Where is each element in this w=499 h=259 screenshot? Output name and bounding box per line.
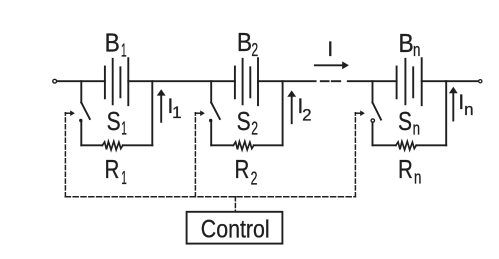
- label S2: [237, 106, 258, 139]
- label In: [458, 91, 473, 119]
- wire junction drop to S2: [210, 81, 212, 102]
- battery B1: [105, 58, 128, 105]
- current arrow I (top): [315, 61, 349, 69]
- svg-text:R: R: [105, 154, 120, 184]
- switch Sn: [371, 103, 381, 146]
- battery Bn: [397, 58, 422, 105]
- label Rn: [398, 154, 421, 187]
- svg-text:2: 2: [251, 169, 258, 189]
- switch S1: [79, 103, 90, 146]
- switch S2: [209, 103, 220, 146]
- svg-text:B: B: [105, 28, 120, 58]
- svg-text:B: B: [399, 28, 414, 58]
- wire top segment C: [258, 80, 316, 82]
- dashed control riser n with arrow: [355, 110, 365, 196]
- svg-text:2: 2: [251, 40, 258, 60]
- label B2: [237, 27, 258, 60]
- label R1: [105, 154, 127, 188]
- dashed control riser 1 with arrow: [65, 110, 75, 196]
- battery B2: [235, 58, 258, 105]
- current arrow I2: [287, 90, 296, 123]
- current arrow I1: [157, 89, 166, 122]
- wire junction drop to Sn: [372, 81, 374, 102]
- right terminal: [479, 80, 482, 83]
- wire top segment D: [348, 80, 397, 82]
- svg-text:1: 1: [172, 103, 181, 122]
- wire junction drop to S1: [80, 81, 82, 102]
- svg-text:R: R: [235, 154, 250, 184]
- left terminal: [53, 79, 57, 83]
- label S1: [107, 106, 127, 139]
- dashed control bus horizontal: [65, 196, 355, 198]
- label B1: [105, 28, 127, 61]
- label I2: [297, 95, 311, 125]
- svg-text:B: B: [237, 27, 252, 57]
- label Bn: [399, 28, 421, 60]
- dashed control riser 2 with arrow: [195, 110, 205, 196]
- svg-text:2: 2: [302, 106, 311, 125]
- svg-text:n: n: [414, 167, 421, 187]
- current arrow In: [449, 87, 458, 121]
- label Sn: [398, 106, 420, 139]
- svg-text:1: 1: [121, 168, 127, 188]
- svg-text:1: 1: [121, 41, 127, 61]
- svg-text:S: S: [398, 106, 412, 136]
- svg-text:1: 1: [121, 119, 127, 139]
- svg-text:S: S: [107, 106, 121, 136]
- wire bottom loop 1 with resistor R1: [81, 141, 152, 149]
- wire bottom loop n with resistor Rn: [373, 141, 447, 149]
- wire right vertical of loop 1: [151, 81, 153, 145]
- wire dashed break: [321, 80, 340, 82]
- wire top segment E: [422, 80, 479, 82]
- svg-text:Control: Control: [201, 215, 270, 243]
- wire top segment A: [57, 80, 105, 82]
- svg-text:n: n: [464, 100, 473, 119]
- svg-text:I: I: [327, 38, 333, 61]
- svg-text:S: S: [237, 106, 251, 136]
- control box: [187, 212, 283, 244]
- wire right vertical of loop n: [445, 81, 447, 145]
- dashed drop to control box: [234, 197, 236, 212]
- label I1: [167, 95, 181, 122]
- wire right vertical of loop 2: [282, 81, 284, 145]
- svg-text:R: R: [398, 154, 413, 184]
- svg-text:n: n: [413, 119, 420, 139]
- svg-text:2: 2: [251, 119, 258, 139]
- svg-text:n: n: [413, 40, 420, 60]
- wire bottom loop 2 with resistor R2: [211, 141, 282, 149]
- wire top segment B: [128, 80, 235, 82]
- label R2: [235, 154, 258, 189]
